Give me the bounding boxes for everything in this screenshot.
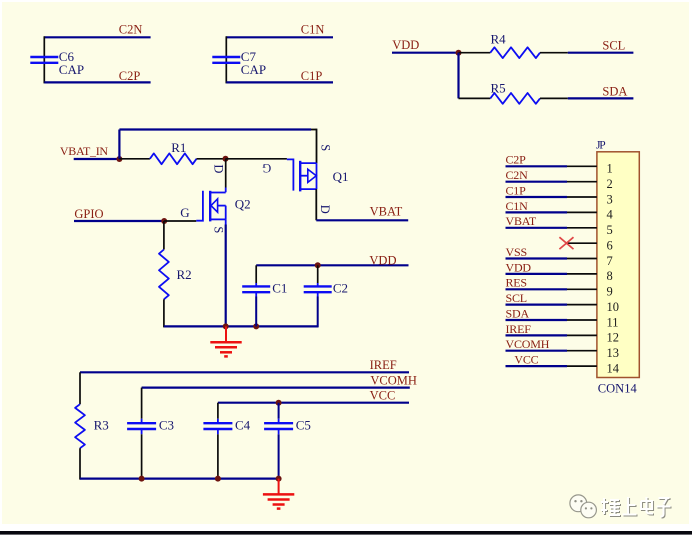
svg-text:VBAT_IN: VBAT_IN [60, 144, 109, 158]
watermark logo icon [570, 495, 587, 512]
svg-text:VCOMH: VCOMH [370, 374, 417, 388]
svg-text:VBAT: VBAT [506, 214, 537, 228]
wire R4 to SCL [540, 52, 568, 54]
svg-text:8: 8 [607, 269, 613, 283]
svg-text:R2: R2 [177, 267, 192, 282]
svg-text:VDD: VDD [369, 253, 396, 267]
wire pin 12 [506, 334, 568, 336]
wire C7 vertical lead [225, 36, 227, 83]
svg-text:C1: C1 [272, 281, 287, 296]
junction node rail/C3 [139, 476, 145, 482]
wire R3 bottom lead [79, 448, 81, 479]
svg-text:R3: R3 [94, 417, 109, 432]
wire pin 8 [506, 273, 568, 275]
junction node rail/C4 [215, 476, 221, 482]
connector CON14 body [597, 152, 639, 378]
wire loop top horizontal [119, 128, 311, 130]
junction node rail/ground [223, 323, 229, 329]
svg-text:IREF: IREF [370, 358, 397, 372]
junction node VDD/R4/R5 [456, 50, 462, 56]
wire pin 2 [506, 181, 568, 183]
capacitor C3 [127, 422, 156, 424]
wire R5 to SDA [540, 97, 568, 99]
wire junction down to Q2 drain [225, 159, 227, 188]
svg-text:5: 5 [607, 223, 613, 237]
svg-text:C1N: C1N [301, 23, 325, 37]
capacitor C2 [304, 285, 332, 287]
wire C4 bottom lead [217, 429, 219, 434]
svg-text:C1P: C1P [506, 183, 527, 197]
wire VBAT_IN [74, 158, 120, 160]
svg-text:VDD: VDD [392, 38, 419, 52]
wire net C1P [226, 81, 333, 83]
svg-text:4: 4 [607, 208, 614, 222]
wire C6 vertical lead [43, 36, 45, 83]
wire Q2 source down to rail [225, 225, 227, 327]
junction node VCC/C5 [276, 400, 282, 406]
wire pin 3 [506, 196, 568, 198]
wire pin 4 [506, 211, 568, 213]
svg-text:C2: C2 [333, 281, 348, 296]
svg-text:VSS: VSS [506, 245, 527, 259]
svg-text:9: 9 [607, 285, 613, 299]
svg-text:IREF: IREF [506, 322, 532, 336]
svg-text:11: 11 [607, 315, 619, 329]
junction node VBAT_IN [116, 156, 122, 162]
svg-text:CAP: CAP [241, 62, 266, 77]
svg-text:12: 12 [607, 331, 620, 345]
wire C3 top lead [141, 388, 143, 419]
svg-text:2: 2 [607, 177, 613, 191]
svg-text:3: 3 [607, 192, 613, 206]
svg-text:R4: R4 [491, 32, 507, 47]
wire pin 1 [506, 165, 568, 167]
wire net C2N [44, 36, 150, 38]
wire GPIO junction down to R2 [163, 221, 165, 250]
wire to R5 [459, 97, 491, 99]
svg-text:RES: RES [506, 276, 527, 290]
wire pin 5 [506, 227, 568, 229]
capacitor C7 [212, 56, 240, 58]
wire C3 bottom lead [141, 429, 143, 434]
wire C4 top lead [217, 403, 219, 419]
wire R2 to rail [163, 299, 165, 327]
wire R1 to junction [197, 158, 226, 160]
svg-text:C4: C4 [235, 417, 251, 432]
svg-text:Q1: Q1 [333, 169, 349, 184]
junction node R1/Q1gate/Q2drain [223, 156, 229, 162]
svg-text:R1: R1 [171, 140, 186, 155]
svg-text:VDD: VDD [506, 260, 532, 274]
wire pin 6 (no connect) [567, 242, 597, 244]
wire pin 14 [506, 365, 568, 367]
svg-text:13: 13 [607, 346, 620, 360]
svg-text:SDA: SDA [506, 306, 530, 320]
svg-text:Q2: Q2 [235, 196, 251, 211]
wire Q1 drain to VBAT [315, 189, 317, 220]
junction node rail/C5/ground [276, 476, 282, 482]
svg-text:S: S [318, 144, 332, 151]
svg-text:D: D [318, 205, 332, 214]
wire GPIO [74, 220, 164, 222]
wire junction to R4 [459, 52, 491, 54]
svg-text:VCOMH: VCOMH [506, 337, 550, 351]
svg-text:GPIO: GPIO [74, 207, 103, 221]
wire junction to Q1 gate [226, 158, 287, 160]
no-ERC marker X [559, 237, 573, 249]
wire net C1N [226, 36, 333, 38]
watermark text 撞上电子 [601, 497, 671, 517]
svg-text:SCL: SCL [602, 39, 625, 53]
capacitor C4 [203, 422, 232, 424]
svg-text:14: 14 [607, 361, 620, 375]
transistor Q2 [196, 191, 203, 221]
wire junction down to R5 row [457, 53, 459, 99]
wire ground rail [164, 325, 318, 327]
wire R3 top lead [79, 372, 81, 404]
junction node rail/C1 [253, 323, 259, 329]
wire net VCC [218, 402, 409, 404]
svg-text:C2P: C2P [119, 69, 141, 83]
svg-text:CON14: CON14 [598, 381, 638, 395]
resistor R2 [159, 250, 169, 300]
svg-text:D: D [211, 164, 225, 173]
wire C2 bottom lead [317, 292, 319, 296]
svg-text:C1P: C1P [301, 69, 323, 83]
wire net VCOMH [142, 387, 410, 389]
svg-text:C2N: C2N [119, 23, 143, 37]
svg-text:VBAT: VBAT [370, 204, 403, 218]
wire C5 top lead [278, 403, 280, 419]
svg-text:C2P: C2P [506, 153, 527, 167]
svg-text:G: G [262, 161, 271, 175]
svg-text:VCC: VCC [370, 388, 396, 402]
svg-text:6: 6 [607, 239, 613, 253]
wire pin 13 [506, 350, 568, 352]
svg-text:JP: JP [596, 140, 605, 152]
wire net IREF [80, 371, 409, 373]
wire loop right vertical to Q1 source [316, 129, 318, 164]
wire loop left vertical [118, 130, 120, 160]
wire junction to Q2 gate [164, 220, 196, 222]
wire pin 7 [506, 257, 568, 259]
ground GND2 [278, 479, 280, 494]
svg-text:G: G [180, 205, 189, 220]
svg-text:C5: C5 [296, 417, 311, 432]
svg-text:CAP: CAP [59, 62, 84, 77]
resistor R1 [150, 153, 197, 164]
capacitor C6 [30, 56, 58, 58]
wire C5 bottom lead [278, 429, 280, 434]
svg-text:C1N: C1N [506, 199, 529, 213]
resistor R4 [490, 47, 540, 58]
svg-text:SDA: SDA [602, 85, 627, 99]
wire net VDD (C1-C2) [256, 264, 408, 266]
capacitor C1 [242, 285, 270, 287]
wire bottom rail [80, 478, 279, 480]
junction node VDD/C2 [315, 262, 321, 268]
svg-text:SCL: SCL [506, 291, 527, 305]
svg-text:S: S [211, 226, 225, 233]
svg-text:1: 1 [607, 162, 613, 176]
junction node GPIO/R2 [161, 218, 167, 224]
svg-text:R5: R5 [491, 81, 506, 96]
wire C1 bottom lead [255, 292, 257, 296]
wire pin 10 [506, 304, 568, 306]
resistor R3 [75, 404, 85, 448]
svg-text:C3: C3 [159, 417, 174, 432]
wire net VBAT [316, 219, 408, 221]
resistor R5 [490, 93, 540, 104]
wire net C2P [44, 81, 150, 83]
wire C2 top lead [317, 265, 319, 283]
wire C1 top lead [255, 265, 257, 283]
wire VDD to junction [392, 52, 459, 54]
svg-text:VCC: VCC [514, 353, 538, 367]
wire pin 11 [506, 319, 568, 321]
svg-text:7: 7 [607, 254, 613, 268]
capacitor C5 [264, 422, 293, 424]
transistor Q1 [287, 159, 294, 190]
svg-text:C2N: C2N [506, 168, 529, 182]
wire pin 9 [506, 288, 568, 290]
svg-text:10: 10 [607, 300, 620, 314]
wire junction to R1 [119, 158, 149, 160]
ground GND1 [225, 326, 227, 341]
